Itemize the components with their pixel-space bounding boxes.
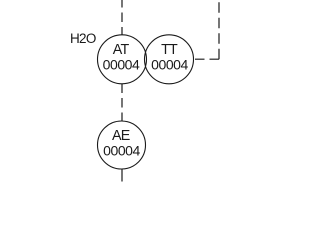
wire: dashed signal line AT to AE: [121, 84, 123, 122]
instrument bubble AT 00004: [98, 35, 147, 84]
svg-text:00004: 00004: [103, 57, 140, 73]
svg-text:00004: 00004: [103, 143, 140, 159]
wire: solid process line below AE: [121, 169, 123, 182]
svg-text:00004: 00004: [151, 57, 188, 73]
wire: dashed signal line into AT from top: [121, 0, 123, 35]
wire: dashed signal line TT to right corner (horizontal): [194, 58, 219, 60]
svg-text:H2O: H2O: [70, 31, 96, 46]
instrument bubble AE 00004: [98, 121, 146, 169]
instrument bubble TT 00004: [145, 35, 194, 84]
wire: dashed signal line corner up to top edge (vertical): [218, 0, 220, 59]
